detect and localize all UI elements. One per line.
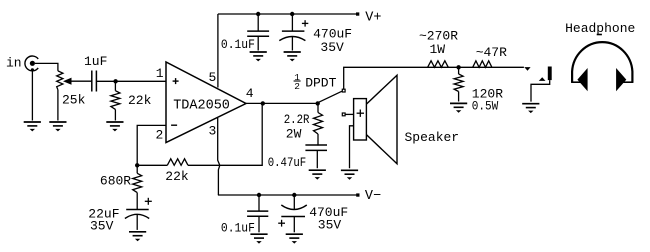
svg-text:V+: V+ bbox=[365, 11, 381, 26]
node output bbox=[261, 101, 265, 105]
headphone jack tip arrow bbox=[524, 67, 530, 71]
svg-text:V−: V− bbox=[365, 189, 381, 204]
node zobel bbox=[316, 101, 320, 105]
wire speaker ground bbox=[350, 126, 354, 169]
svg-text:22k: 22k bbox=[165, 169, 189, 184]
capacitor 22uF electrolytic bbox=[125, 198, 152, 230]
headphone jack sleeve arrow bbox=[539, 77, 546, 81]
capacitor 470uF bottom electrolytic bbox=[278, 195, 307, 232]
op-amp U1 TDA2050 bbox=[166, 62, 246, 143]
headphone jack plug bar bbox=[548, 67, 552, 81]
ground speaker bbox=[341, 170, 358, 179]
svg-text:35V: 35V bbox=[320, 40, 344, 55]
wire pin 5 to V+ rail bbox=[217, 14, 219, 88]
resistor 680R bbox=[133, 165, 142, 209]
svg-text:1W: 1W bbox=[430, 42, 446, 57]
ground pot bbox=[49, 122, 66, 131]
ground 22uF bbox=[129, 232, 146, 241]
node divider bbox=[456, 65, 460, 69]
resistor 2.2R bbox=[314, 103, 323, 145]
V+ rail bbox=[218, 13, 357, 15]
node 0.1uF bottom bbox=[257, 193, 261, 197]
V+ terminal bbox=[356, 12, 359, 15]
wire output pin 4 bbox=[246, 102, 318, 104]
svg-text:35V: 35V bbox=[90, 219, 114, 234]
ground 470uF top bbox=[284, 52, 301, 61]
node 470uF top bbox=[290, 12, 294, 16]
svg-text:4: 4 bbox=[246, 86, 254, 101]
svg-text:in: in bbox=[6, 55, 22, 70]
wire jack sleeve ground bbox=[531, 80, 550, 102]
wire switch to headphone line bbox=[344, 67, 524, 89]
svg-text:0.47uF: 0.47uF bbox=[268, 155, 307, 170]
svg-text:3: 3 bbox=[209, 123, 217, 138]
svg-text:2.2R: 2.2R bbox=[284, 112, 310, 127]
switch half DPDT lever bbox=[317, 91, 343, 103]
ground jack bbox=[24, 122, 41, 131]
speaker LS1 bbox=[354, 75, 397, 164]
pot wiper arrow bbox=[63, 78, 92, 85]
svg-text:35V: 35V bbox=[318, 218, 342, 233]
svg-text:DPDT: DPDT bbox=[305, 75, 336, 90]
switch contact up bbox=[342, 89, 345, 92]
capacitor 470uF top electrolytic bbox=[279, 14, 308, 51]
headphone icon bbox=[571, 35, 633, 92]
node 0.1uF top bbox=[256, 12, 260, 16]
ground 0.1uF bottom bbox=[250, 234, 267, 243]
capacitor 1uF bbox=[92, 71, 97, 92]
resistor 270R bbox=[428, 61, 449, 68]
svg-text:2: 2 bbox=[294, 81, 300, 92]
ground headphone jack bbox=[522, 104, 539, 113]
potentiometer 25k bbox=[57, 71, 63, 121]
capacitor 0.1uF top bbox=[247, 14, 269, 51]
ground 470uF bottom bbox=[286, 234, 303, 243]
resistor 22k input bbox=[111, 81, 120, 120]
wire pin 2 bbox=[137, 125, 166, 165]
svg-text:W: W bbox=[294, 126, 302, 141]
node 470uF bottom bbox=[292, 193, 296, 197]
svg-text:~47R: ~47R bbox=[476, 45, 507, 60]
node after 1uF bbox=[113, 79, 117, 83]
wire jack to pot bbox=[35, 63, 58, 71]
wire jack ground bbox=[31, 71, 33, 121]
svg-text:5: 5 bbox=[209, 70, 217, 85]
svg-text:0.1uF: 0.1uF bbox=[221, 221, 255, 236]
svg-text:22k: 22k bbox=[128, 93, 152, 108]
wire cap to pin1 bbox=[96, 80, 166, 82]
wire pin 3 to V- rail bbox=[218, 118, 220, 195]
resistor 47R bbox=[473, 61, 492, 68]
svg-text:25k: 25k bbox=[62, 92, 86, 107]
svg-text:1uF: 1uF bbox=[84, 54, 107, 69]
svg-text:1: 1 bbox=[156, 66, 164, 81]
ground 0.1uF top bbox=[250, 52, 267, 61]
ground 120R bbox=[450, 103, 467, 112]
resistor 22k feedback bbox=[167, 159, 188, 166]
ground 22k input bbox=[106, 122, 123, 131]
wire switch to speaker bbox=[345, 113, 354, 115]
connector J1 input jack bbox=[25, 56, 38, 72]
svg-text:Speaker: Speaker bbox=[405, 130, 460, 145]
svg-text:2: 2 bbox=[286, 126, 294, 141]
V- terminal bbox=[356, 193, 359, 196]
svg-text:0.5W: 0.5W bbox=[472, 99, 499, 114]
capacitor 0.47uF bbox=[305, 145, 327, 168]
svg-text:0.1uF: 0.1uF bbox=[221, 37, 255, 52]
switch contact down bbox=[342, 113, 345, 116]
wire feedback bbox=[137, 103, 262, 165]
svg-text:TDA2050: TDA2050 bbox=[173, 98, 230, 113]
capacitor 0.1uF bottom bbox=[247, 195, 268, 232]
ground 0.47uF bbox=[309, 170, 326, 179]
svg-text:680R: 680R bbox=[100, 174, 131, 189]
svg-text:2: 2 bbox=[156, 127, 164, 142]
resistor 120R bbox=[454, 67, 463, 101]
node feedback bbox=[135, 163, 139, 167]
label 1/2 DPDT bbox=[294, 72, 337, 92]
V- rail bbox=[218, 194, 357, 196]
